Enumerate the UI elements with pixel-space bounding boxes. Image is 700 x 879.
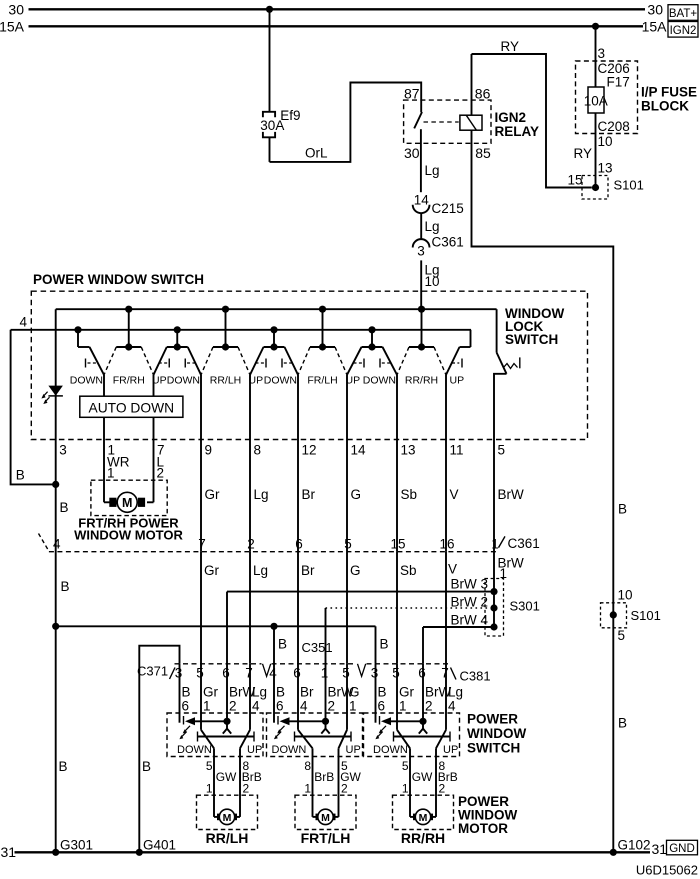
label BrW 4 <box>451 612 489 627</box>
relay linkage dashed <box>424 121 459 123</box>
svg-text:DOWN: DOWN <box>70 375 103 387</box>
door switch group 1 contacts <box>179 664 254 749</box>
svg-text:30: 30 <box>404 145 420 161</box>
switch feed arm 5 <box>446 330 471 375</box>
fuse Ef9 30A <box>260 108 300 137</box>
wire C215 to C361 <box>420 213 422 239</box>
ground G401 <box>136 838 176 856</box>
svg-text:85: 85 <box>475 145 491 161</box>
svg-text:5: 5 <box>392 666 400 681</box>
label I/P FUSE BLOCK <box>641 85 697 114</box>
main switch pin numbers bottom <box>59 442 505 457</box>
switch position labels row <box>70 375 464 387</box>
svg-text:C381: C381 <box>460 668 491 683</box>
svg-text:Lg: Lg <box>425 219 440 234</box>
label motor FRT/LH <box>301 830 351 846</box>
wire BrW4 to C381 pin6 <box>423 623 498 663</box>
svg-text:3: 3 <box>175 666 183 681</box>
wire second bus <box>11 329 471 331</box>
label Lg lower <box>425 263 440 278</box>
switch S1 FR/RH rocker <box>104 306 154 375</box>
svg-text:BAT+: BAT+ <box>669 8 698 20</box>
svg-text:3: 3 <box>59 442 67 457</box>
svg-text:1: 1 <box>203 699 211 714</box>
label UP group 3 <box>443 744 458 756</box>
svg-text:2: 2 <box>328 699 336 714</box>
node BAT+ terminal box <box>668 5 698 21</box>
wire B column main <box>55 309 57 852</box>
splice S301 box <box>485 579 504 637</box>
svg-text:10A: 10A <box>584 93 608 108</box>
switch pin numbers group 3 <box>378 699 457 714</box>
svg-text:Gr: Gr <box>204 563 220 578</box>
ground G301 <box>52 838 93 856</box>
wire bus 31 ground <box>15 851 651 853</box>
svg-text:3: 3 <box>417 244 425 259</box>
connector row C371 C351 C381 <box>170 664 457 680</box>
svg-text:RR/RH: RR/RH <box>405 375 438 387</box>
svg-text:S101: S101 <box>614 177 644 192</box>
svg-text:B: B <box>378 684 387 699</box>
svg-text:IGN2: IGN2 <box>670 25 697 37</box>
splice S101 upper <box>582 176 608 200</box>
svg-text:DOWN: DOWN <box>264 375 297 387</box>
splice S101 lower <box>601 603 627 628</box>
svg-text:DOWN: DOWN <box>373 744 408 756</box>
svg-text:30: 30 <box>647 1 663 17</box>
connector C361 row <box>39 534 540 552</box>
label C215 <box>432 201 464 216</box>
label B right lower <box>618 716 627 731</box>
svg-text:Sb: Sb <box>401 487 418 502</box>
wire bus 15A (IGN2) <box>29 25 644 27</box>
label B G301 wire <box>59 759 68 774</box>
label BrW below C361 <box>498 556 525 581</box>
svg-text:C361: C361 <box>432 234 464 249</box>
svg-text:B: B <box>618 501 627 516</box>
svg-text:Br: Br <box>300 684 314 699</box>
svg-text:30A: 30A <box>260 118 284 133</box>
wire BrW2 to C351 pin1 <box>326 604 498 663</box>
svg-text:U6D15062: U6D15062 <box>636 863 698 878</box>
wire relay pin86 to RY <box>471 54 473 115</box>
svg-text:15: 15 <box>390 537 405 552</box>
svg-text:POWER: POWER <box>467 712 518 727</box>
connector C206 label <box>598 61 630 76</box>
svg-text:2: 2 <box>425 699 433 714</box>
svg-text:DOWN: DOWN <box>272 744 307 756</box>
switch feed arm 1 <box>74 326 104 375</box>
label RY right <box>574 146 593 161</box>
svg-text:Gr: Gr <box>205 487 221 502</box>
switch feed trapezoid 4 <box>347 326 397 375</box>
pin 5 label S101 lower <box>618 628 626 643</box>
wire Br to C351 <box>297 552 299 664</box>
svg-text:B: B <box>16 468 25 483</box>
switch S4 RR/RH rocker <box>397 306 446 375</box>
svg-text:B: B <box>278 637 287 652</box>
door switch box group 3 <box>364 713 460 757</box>
wire top bus <box>56 308 497 310</box>
wire relay pin30 down <box>420 129 422 192</box>
svg-text:IGN2: IGN2 <box>495 110 527 125</box>
motor M4 RR/RH <box>393 795 454 829</box>
label U6D15062 <box>636 863 698 878</box>
wire colour labels above C361 <box>205 487 525 502</box>
switch S3 FR/LH rocker <box>298 306 347 375</box>
door switch group 3 contacts <box>375 664 450 749</box>
svg-text:B: B <box>60 500 69 515</box>
svg-text:DOWN: DOWN <box>363 375 396 387</box>
label DOWN group 2 <box>272 744 307 756</box>
pin 15 label <box>568 172 583 187</box>
svg-text:31: 31 <box>1 844 17 860</box>
svg-text:5: 5 <box>342 666 350 681</box>
svg-text:GND: GND <box>669 843 695 855</box>
svg-text:10: 10 <box>425 274 440 289</box>
wire colour labels group 2 <box>276 684 360 699</box>
label C371 <box>137 664 168 679</box>
connector pins group 3 <box>371 666 449 681</box>
svg-text:8: 8 <box>254 442 262 457</box>
svg-text:4: 4 <box>300 699 308 714</box>
label C361 inline <box>432 234 464 249</box>
svg-text:1: 1 <box>321 666 329 681</box>
svg-text:Gr: Gr <box>203 684 219 699</box>
svg-text:BrW: BrW <box>498 487 525 502</box>
node 30 label left <box>8 1 24 17</box>
wire RY relay86 to fuseblock branch <box>472 54 592 188</box>
svg-text:6: 6 <box>418 666 426 681</box>
svg-text:1: 1 <box>304 782 311 796</box>
motor pin 1 label <box>107 466 115 481</box>
svg-text:G: G <box>350 563 361 578</box>
label FRT/RH POWER WINDOW MOTOR <box>74 515 183 542</box>
relay pin 87 label <box>404 85 420 101</box>
wire B column labels below C361 <box>61 579 70 594</box>
label POWER WINDOW SWITCH right <box>467 712 526 756</box>
svg-text:1: 1 <box>349 699 357 714</box>
label C381 <box>460 668 491 683</box>
svg-text:UP: UP <box>247 744 262 756</box>
junction pin3/pin4 wires <box>52 481 59 488</box>
wire G to C351 <box>346 552 348 664</box>
svg-text:2: 2 <box>229 699 237 714</box>
label B below junction <box>60 500 69 515</box>
pin 10 label <box>598 134 613 149</box>
label S101 lower <box>631 608 661 623</box>
svg-text:15: 15 <box>568 172 583 187</box>
label UP group 2 <box>346 744 361 756</box>
wire F17 to S101 <box>595 113 597 188</box>
svg-text:BrW 3: BrW 3 <box>451 577 489 592</box>
wire colour labels below C361 <box>204 563 417 578</box>
I/P fuse block dashed box <box>576 61 638 134</box>
svg-text:B: B <box>61 579 70 594</box>
output labels group 1 <box>206 759 262 796</box>
door switch box group 2 <box>267 713 363 757</box>
switch pin numbers group 1 <box>182 699 261 714</box>
node 31 label right <box>652 841 668 857</box>
svg-text:UP: UP <box>450 375 465 387</box>
svg-text:5: 5 <box>618 628 626 643</box>
svg-text:11: 11 <box>450 442 464 457</box>
relay pin 85 label <box>475 145 491 161</box>
svg-text:1: 1 <box>107 466 115 481</box>
label DOWN group 3 <box>373 744 408 756</box>
label S101 upper <box>614 177 644 192</box>
svg-text:G: G <box>351 487 362 502</box>
wire OrL fuse to relay pin87 <box>270 83 422 162</box>
svg-text:B: B <box>276 684 285 699</box>
svg-text:G301: G301 <box>60 838 93 853</box>
label Lg mid <box>425 219 440 234</box>
relay pin 30 label <box>404 145 420 161</box>
svg-text:GW: GW <box>216 770 237 784</box>
wire B feed to door switches <box>56 623 376 664</box>
svg-text:RY: RY <box>501 39 520 54</box>
svg-text:M: M <box>321 812 330 824</box>
svg-text:RY: RY <box>574 146 593 161</box>
svg-text:G: G <box>349 684 360 699</box>
wire L motor feed <box>147 440 154 503</box>
svg-text:6: 6 <box>276 699 284 714</box>
label C351 <box>302 640 333 655</box>
svg-text:Lg: Lg <box>448 684 463 699</box>
wire colour labels group 1 <box>182 684 268 699</box>
svg-text:10: 10 <box>618 588 633 603</box>
label OrL <box>305 146 328 161</box>
switch feed trapezoid 3 <box>250 326 298 375</box>
junction B column feed <box>52 623 59 630</box>
node IGN2 terminal box <box>668 22 698 38</box>
label POWER WINDOW MOTOR right <box>458 794 517 836</box>
svg-text:GW: GW <box>412 770 433 784</box>
svg-text:B: B <box>182 684 191 699</box>
svg-text:UP: UP <box>346 744 361 756</box>
svg-text:1: 1 <box>491 537 499 552</box>
svg-text:86: 86 <box>475 85 491 101</box>
svg-text:RR/LH: RR/LH <box>210 375 242 387</box>
svg-text:Gr: Gr <box>399 684 415 699</box>
connector pins group 2 <box>269 666 350 681</box>
wire 15A to fuse F17 <box>595 26 597 87</box>
label POWER WINDOW SWITCH title <box>33 272 204 287</box>
svg-text:6: 6 <box>293 666 301 681</box>
label L <box>157 455 165 470</box>
node 30 label right <box>647 1 663 17</box>
relay contact blade 87-30 <box>414 112 422 128</box>
svg-text:6: 6 <box>222 666 230 681</box>
motor pin 2 label <box>157 466 165 481</box>
svg-text:12: 12 <box>302 442 317 457</box>
wire V to C381 <box>445 552 447 664</box>
svg-text:V: V <box>450 487 459 502</box>
wire WR motor feed <box>104 440 110 503</box>
svg-text:G401: G401 <box>143 838 176 853</box>
svg-text:C371: C371 <box>137 664 168 679</box>
ground G102 <box>610 838 651 856</box>
label UP group 1 <box>247 744 262 756</box>
wire Lg into switch box <box>420 260 422 309</box>
svg-text:2: 2 <box>247 537 255 552</box>
svg-text:3: 3 <box>371 666 379 681</box>
svg-text:FR/RH: FR/RH <box>113 375 145 387</box>
svg-text:30: 30 <box>8 1 24 17</box>
pin 14 label <box>414 192 430 207</box>
switch feed trapezoid 2 <box>154 326 202 375</box>
svg-text:2: 2 <box>439 782 446 796</box>
svg-text:15A: 15A <box>0 18 25 34</box>
svg-text:BrB: BrB <box>314 770 334 784</box>
svg-text:S101: S101 <box>631 608 661 623</box>
svg-text:F17: F17 <box>607 74 630 89</box>
svg-text:87: 87 <box>404 85 420 101</box>
wire Lg to C371 <box>249 552 251 664</box>
svg-text:DOWN: DOWN <box>167 375 200 387</box>
wire bus 30 (BAT+) <box>29 8 646 10</box>
svg-text:7: 7 <box>198 537 206 552</box>
svg-text:4: 4 <box>20 314 28 329</box>
svg-text:C361: C361 <box>508 536 540 551</box>
svg-text:5: 5 <box>344 537 352 552</box>
switch pin numbers group 2 <box>276 699 357 714</box>
svg-text:13: 13 <box>401 442 416 457</box>
label DOWN group 1 <box>177 744 212 756</box>
svg-text:RELAY: RELAY <box>495 124 540 139</box>
svg-text:M: M <box>419 812 428 824</box>
svg-text:Lg: Lg <box>253 563 268 578</box>
pin 13 label <box>598 161 613 176</box>
label motor RR/LH <box>206 830 249 846</box>
relay IGN2 dashed box <box>404 100 491 143</box>
svg-text:7: 7 <box>245 666 253 681</box>
connector C215 half <box>413 205 430 213</box>
wires switch pins to C361 <box>201 440 494 552</box>
svg-text:6: 6 <box>378 699 386 714</box>
svg-text:4: 4 <box>252 699 260 714</box>
label motor RR/RH <box>401 830 445 846</box>
svg-text:15A: 15A <box>642 18 668 34</box>
label B group3 <box>380 637 389 652</box>
svg-text:7: 7 <box>441 666 449 681</box>
node 31 label left <box>1 844 17 860</box>
label S301 <box>510 598 540 613</box>
door switch box group 1 <box>167 713 263 757</box>
svg-text:C351: C351 <box>302 640 333 655</box>
label BrW 2 <box>451 594 489 609</box>
svg-text:4: 4 <box>448 699 456 714</box>
relay pin 86 label <box>475 85 491 101</box>
svg-text:Br: Br <box>301 563 315 578</box>
svg-text:Lg: Lg <box>252 684 267 699</box>
label RY top <box>501 39 520 54</box>
svg-text:B: B <box>142 759 151 774</box>
svg-text:FRT/LH: FRT/LH <box>301 830 351 846</box>
svg-text:5: 5 <box>196 666 204 681</box>
svg-text:4: 4 <box>53 537 61 552</box>
svg-text:13: 13 <box>598 161 613 176</box>
label B group2 <box>278 637 287 652</box>
wires switch to motor group 1 <box>214 748 240 817</box>
svg-text:POWER WINDOW SWITCH: POWER WINDOW SWITCH <box>33 272 204 287</box>
svg-text:Lg: Lg <box>425 163 440 178</box>
svg-text:FR/LH: FR/LH <box>307 375 337 387</box>
label WINDOW LOCK SWITCH <box>505 306 564 347</box>
svg-text:SWITCH: SWITCH <box>505 332 558 347</box>
AUTO DOWN box <box>80 396 183 417</box>
svg-text:BrW 2: BrW 2 <box>451 594 489 609</box>
connector C208 label <box>598 119 630 134</box>
connector C361 half <box>413 239 430 247</box>
svg-text:Lg: Lg <box>254 487 269 502</box>
svg-text:RR/RH: RR/RH <box>401 830 445 846</box>
svg-text:I/P FUSE: I/P FUSE <box>641 85 697 100</box>
door switch group 2 contacts <box>274 664 351 749</box>
label BrW 3 <box>451 577 489 592</box>
pin 10 label switch <box>425 274 440 289</box>
wires switch to motor group 3 <box>410 748 436 817</box>
svg-text:2: 2 <box>157 466 165 481</box>
svg-text:WINDOW: WINDOW <box>467 726 526 741</box>
label B right upper <box>618 501 627 516</box>
output labels group 3 <box>402 759 458 796</box>
svg-text:5: 5 <box>206 759 213 773</box>
power window switch dashed box <box>31 291 587 439</box>
label WR <box>107 455 130 470</box>
svg-text:C208: C208 <box>598 119 630 134</box>
svg-text:14: 14 <box>414 192 430 207</box>
label B left leg <box>16 468 25 483</box>
svg-text:DOWN: DOWN <box>177 744 212 756</box>
svg-text:B: B <box>59 759 68 774</box>
pin 4 label entry <box>20 314 28 329</box>
motor M2 RR/LH <box>197 795 258 829</box>
svg-text:3: 3 <box>598 46 606 61</box>
svg-text:B: B <box>380 637 389 652</box>
svg-text:16: 16 <box>439 537 454 552</box>
fuse F17 label <box>607 74 630 89</box>
label V below C361 <box>448 561 457 576</box>
node 15A label left <box>0 18 25 34</box>
motor M1 FRT/RH <box>91 480 167 515</box>
wire pin4 left leg <box>11 330 56 485</box>
wire Sb to C381 <box>396 552 398 664</box>
switch S2 RR/LH rocker <box>201 306 250 375</box>
svg-text:Br: Br <box>302 487 316 502</box>
junction on bus 15A <box>592 23 599 30</box>
wire relay pin85 to right ground <box>472 130 614 852</box>
svg-text:G102: G102 <box>618 838 651 853</box>
svg-text:C215: C215 <box>432 201 464 216</box>
LED illumination diode <box>41 386 63 404</box>
svg-text:SWITCH: SWITCH <box>467 741 520 756</box>
window lock switch <box>494 309 520 439</box>
pin 10 label S101 lower <box>618 588 633 603</box>
junction on bus 30 <box>266 6 273 13</box>
pin 3 label fuseblock <box>598 46 606 61</box>
svg-text:6: 6 <box>182 699 190 714</box>
svg-text:S301: S301 <box>510 598 540 613</box>
svg-text:2: 2 <box>341 782 348 796</box>
fuse F17 10A <box>584 87 608 113</box>
pin 3 label C361 <box>417 244 425 259</box>
svg-text:1: 1 <box>206 782 213 796</box>
svg-text:WINDOW MOTOR: WINDOW MOTOR <box>74 527 183 542</box>
label IGN2 RELAY <box>495 110 540 139</box>
svg-text:5: 5 <box>402 759 409 773</box>
svg-text:AUTO DOWN: AUTO DOWN <box>89 400 175 415</box>
